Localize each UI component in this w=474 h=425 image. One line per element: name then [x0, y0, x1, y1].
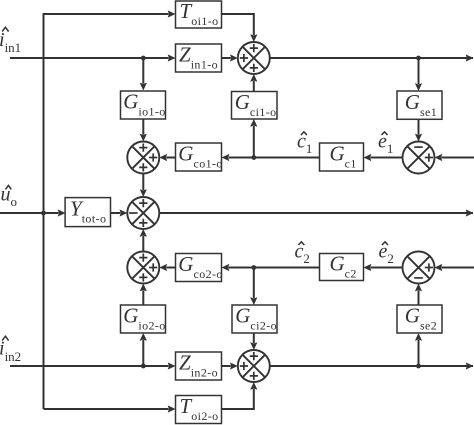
- svg-text:c2: c2: [295, 241, 310, 267]
- arrowhead into G_c2: [364, 264, 372, 271]
- wire i_in2 input: [10, 365, 169, 367]
- wire T_oi2-o output to bottom sum: [222, 389, 254, 409]
- arrowhead into Z_in1-o: [168, 54, 176, 61]
- arrowhead into T_oi1-o: [168, 10, 176, 17]
- summing junction J2 (current mix 1): [127, 142, 159, 174]
- node i_in1 branch: [141, 56, 146, 61]
- wire branch up to G_se2: [418, 340, 420, 366]
- svg-text:uo: uo: [1, 184, 18, 210]
- arrowhead into M2 from G_se2: [415, 284, 422, 292]
- label u_o hat: [6, 185, 12, 189]
- summing junction M1 (error 1): [403, 142, 435, 174]
- wire mid sum output: [159, 212, 473, 214]
- wire G_se2 to M2: [418, 291, 420, 306]
- arrowhead into top sum from G_ci1-o: [250, 74, 257, 82]
- arrowhead into J2 from G_io1-o: [140, 134, 147, 142]
- summing junction S2 (output node): [127, 197, 159, 229]
- arrowhead into G_se2: [415, 333, 422, 341]
- wire G_ci2-o to bottom sum: [253, 333, 255, 343]
- node c2 branch: [251, 265, 256, 270]
- arrowhead output i2 right edge: [466, 362, 474, 369]
- wire u_o input: [0, 212, 59, 214]
- wire G_c2 output (c2 line): [229, 267, 320, 269]
- wire i_in1 input: [10, 57, 169, 59]
- wire reference input 1: [442, 157, 474, 159]
- wire G_io2-o to J3: [142, 291, 144, 306]
- arrowhead into G_co1-o: [222, 154, 230, 161]
- block G_ci2-o: [232, 304, 277, 333]
- arrowhead into G_io1-o: [140, 83, 147, 91]
- svg-text:iin2: iin2: [0, 338, 21, 365]
- wire T_oi1-o output to top sum: [222, 14, 254, 35]
- arrowhead into bottom sum from Z_in2-o: [230, 362, 238, 369]
- node u_o branch: [41, 211, 46, 216]
- wire M2 output to G_c2: [371, 267, 403, 269]
- label i_in1 hat: [2, 27, 8, 31]
- summing junction J3 (current mix 2): [127, 252, 159, 284]
- wire branch down to G_se1: [418, 58, 420, 84]
- label e1 hat: [382, 132, 388, 135]
- arrowhead into M1 from right: [435, 154, 443, 161]
- svg-text:c1: c1: [297, 131, 312, 157]
- block T_oi2-o: [176, 394, 222, 423]
- wire branch down to G_ci2-o: [253, 268, 255, 299]
- arrowhead into M2 from right: [435, 264, 443, 271]
- arrowhead into G_ci2-o: [250, 297, 257, 305]
- block Y_tot-o: [65, 197, 110, 227]
- block G_io1-o: [121, 90, 166, 119]
- wire branch down to G_io1-o: [142, 58, 144, 84]
- svg-text:e1: e1: [378, 131, 393, 157]
- label c1 hat: [301, 132, 307, 135]
- label c2 hat: [298, 242, 304, 245]
- wire G_ci1-o to top sum: [253, 81, 255, 92]
- arrowhead into J3 from G_io2-o: [140, 284, 147, 292]
- block G_co2-o: [176, 252, 223, 281]
- summing junction S1 (i1 node): [238, 42, 270, 74]
- label e2 hat: [382, 242, 388, 245]
- wire top sum output: [270, 57, 473, 59]
- block G_co1-o: [176, 142, 223, 171]
- wire G_se1 to M1: [418, 119, 420, 134]
- wire G_io1-o to J2: [142, 119, 144, 135]
- wire J3 to mid sum: [142, 236, 144, 252]
- wire G_co1-o output to J2: [166, 157, 175, 159]
- label i_in2 hat: [2, 336, 8, 340]
- svg-text:iin1: iin1: [0, 29, 21, 55]
- arrowhead into T_oi2-o: [168, 405, 176, 412]
- block Z_in1-o: [176, 43, 222, 72]
- wire G_co2-o output to J3: [166, 267, 175, 269]
- arrowhead into M1 from G_se1: [415, 134, 422, 142]
- block Z_in2-o: [176, 351, 222, 380]
- block G_c2: [320, 252, 364, 281]
- block G_se1: [397, 90, 442, 120]
- wire G_c1 output (c1 line): [229, 157, 320, 159]
- arrowhead into J3 from G_co2-o: [159, 264, 167, 271]
- wire branch up to G_ci1-o: [253, 126, 255, 158]
- wire M1 output to G_c1: [371, 157, 403, 159]
- arrowhead output u right edge: [466, 209, 474, 216]
- arrowhead into Y_tot-o: [58, 209, 66, 216]
- wire Z_in1-o output: [222, 57, 231, 59]
- block T_oi1-o: [176, 0, 222, 28]
- arrowhead into mid sum from J3: [140, 229, 147, 237]
- wire reference input 2: [442, 267, 474, 269]
- wire bottom sum output: [270, 365, 473, 367]
- arrowhead into bottom sum from T_oi2-o: [250, 382, 257, 390]
- wire bus bottom to T_oi2-o: [44, 408, 169, 410]
- summing junction M2 (error 2): [403, 252, 435, 284]
- arrowhead into G_c1: [364, 154, 372, 161]
- node i_in2 branch: [141, 364, 146, 369]
- wire feedback bus left: [44, 14, 169, 409]
- arrowhead into bottom sum from G_ci2-o: [250, 342, 257, 350]
- arrowhead output i1 right edge: [466, 54, 474, 61]
- arrowhead into top sum from Z_in1-o: [230, 54, 238, 61]
- summing junction S3 (i2 node): [238, 350, 270, 382]
- arrowhead into G_ci1-o: [250, 119, 257, 127]
- node sense branch 1: [416, 56, 421, 61]
- block G_se2: [397, 304, 442, 333]
- arrowhead into Z_in2-o: [168, 362, 176, 369]
- block G_c1: [320, 142, 364, 171]
- arrowhead into G_se1: [415, 83, 422, 91]
- wire Z_in2-o output: [222, 365, 231, 367]
- arrowhead into G_io2-o: [140, 333, 147, 341]
- arrowhead into G_co2-o: [222, 264, 230, 271]
- wire branch up to G_io2-o: [142, 340, 144, 366]
- wire J2 to mid sum: [142, 174, 144, 191]
- arrowhead into top sum from T_oi1-o: [250, 34, 257, 42]
- svg-text:e2: e2: [379, 241, 394, 267]
- wire Y_tot-o output: [110, 212, 120, 214]
- node c1 branch: [251, 155, 256, 160]
- arrowhead into J2 from G_co1-o: [159, 154, 167, 161]
- arrowhead into mid sum from Y_tot-o: [120, 209, 128, 216]
- block G_io2-o: [121, 304, 166, 333]
- node sense branch 2: [416, 364, 421, 369]
- arrowhead into mid sum from J2: [140, 189, 147, 197]
- block G_ci1-o: [232, 90, 278, 119]
